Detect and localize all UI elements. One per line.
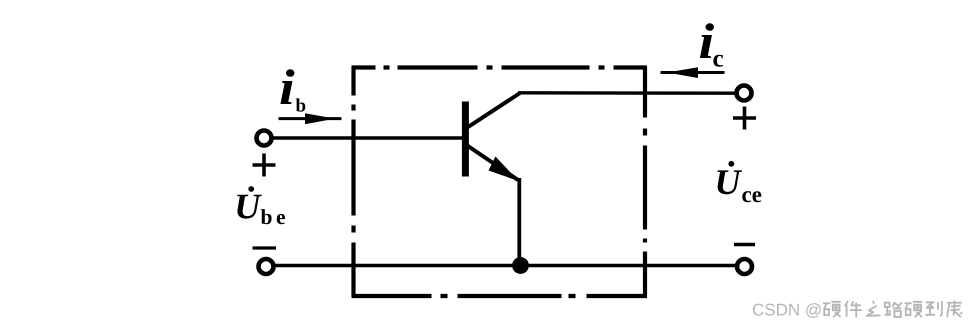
wire bottom rail <box>273 264 737 268</box>
dash-dot box bottom edge <box>352 294 648 298</box>
wire collector horizontal <box>518 91 736 95</box>
dash-dot box right edge <box>643 68 647 297</box>
label Ic <box>700 23 723 66</box>
wire emitter vertical <box>517 178 521 266</box>
terminal E2 (right bottom) <box>737 259 752 274</box>
wire base (left terminal to transistor base) <box>271 136 464 139</box>
transistor Q1 emitter slant <box>467 145 519 180</box>
watermark hanzi 底 <box>947 301 962 318</box>
watermark hanzi 到 <box>925 301 942 316</box>
watermark hanzi 件 <box>845 301 862 318</box>
label Ib <box>280 69 305 111</box>
terminal C (right top) <box>737 86 752 101</box>
transistor Q1 base bar <box>462 102 469 177</box>
label Uce <box>717 161 761 202</box>
dash-dot box top edge <box>352 65 648 69</box>
watermark hanzi 硬 <box>823 302 841 317</box>
watermark CSDN <box>753 303 821 318</box>
junction node (emitter to bottom rail) <box>512 257 529 274</box>
terminal E1 (left bottom) <box>259 259 274 274</box>
terminal B (left top) <box>257 131 272 146</box>
current arrow Ib <box>279 117 342 120</box>
current arrow Ic <box>661 71 725 74</box>
label Ube <box>237 186 285 224</box>
plus sign right <box>733 107 756 130</box>
watermark hanzi 之 <box>866 301 880 316</box>
dash-dot box left edge <box>351 68 355 297</box>
minus sign left <box>253 246 277 249</box>
minus sign right <box>734 243 755 246</box>
transistor Q1 collector slant <box>467 93 521 128</box>
watermark hanzi 硬 (second) <box>905 302 923 317</box>
watermark hanzi 路 <box>885 302 902 317</box>
plus sign left <box>253 154 276 177</box>
transistor Q1 emitter arrowhead <box>489 157 519 182</box>
